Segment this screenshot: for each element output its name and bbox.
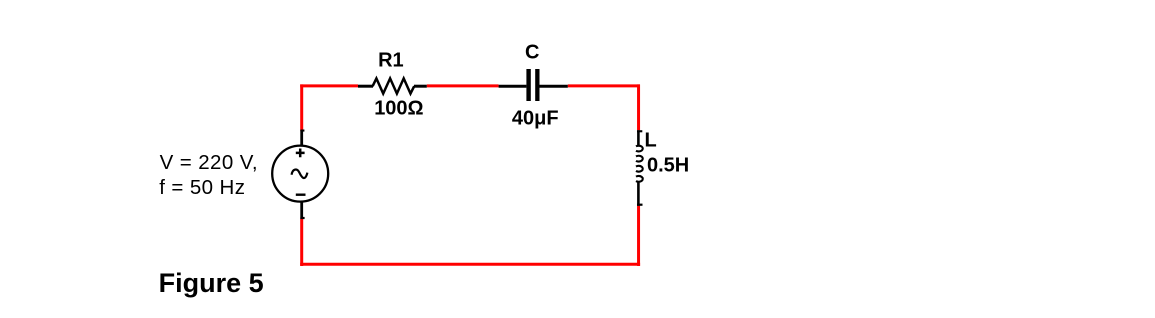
svg-text:40μF: 40μF — [512, 107, 559, 129]
svg-text:C: C — [525, 41, 539, 63]
svg-text:f = 50 Hz: f = 50 Hz — [159, 176, 245, 199]
svg-text:V = 220 V,: V = 220 V, — [160, 151, 258, 174]
svg-text:L: L — [644, 130, 656, 152]
svg-text:100Ω: 100Ω — [374, 97, 423, 119]
svg-text:Figure 5: Figure 5 — [159, 268, 264, 298]
svg-text:R1: R1 — [378, 50, 404, 72]
svg-text:0.5H: 0.5H — [647, 154, 689, 176]
